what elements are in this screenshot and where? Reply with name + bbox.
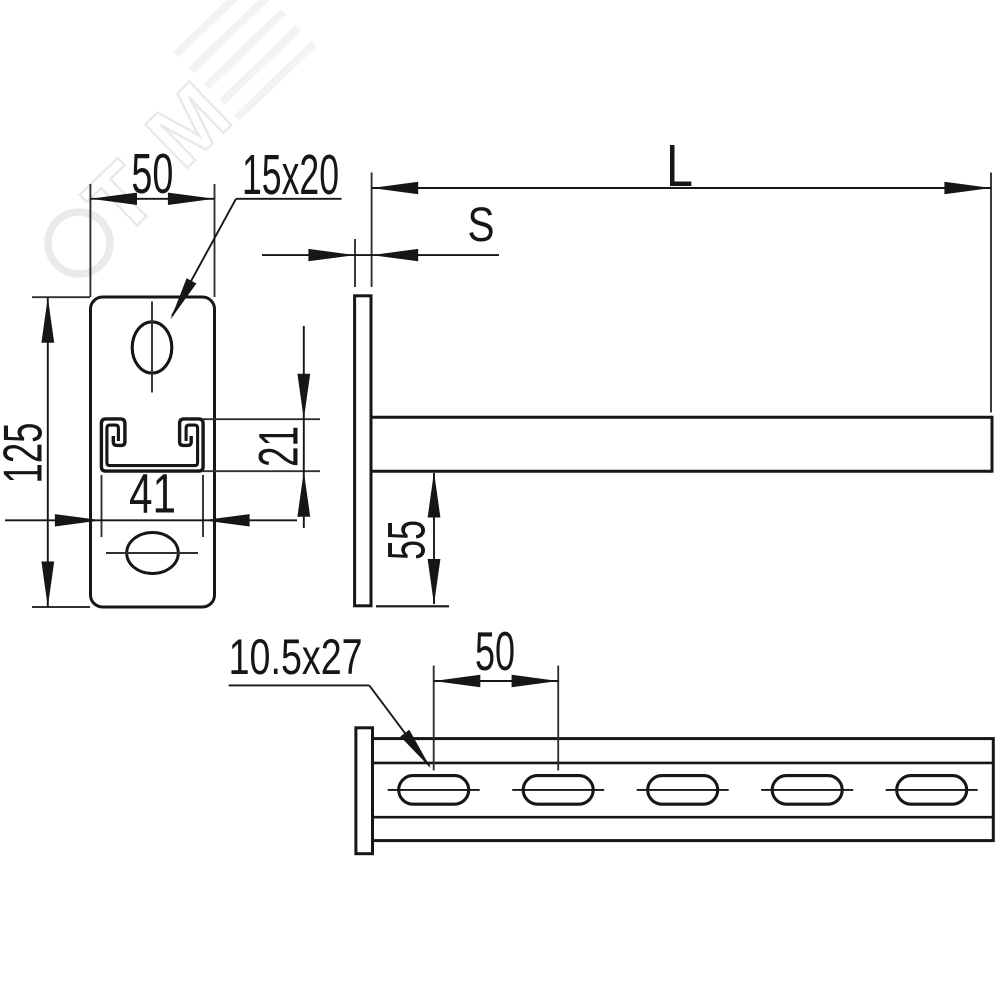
side view: arm bottom edge	[371, 470, 992, 473]
side view: wall plate	[355, 296, 371, 606]
bottom view: slot 2 centerline	[512, 789, 604, 791]
dimension 41: dimension line	[5, 519, 297, 521]
svg-text:21: 21	[247, 426, 310, 467]
bottom view: slot 3	[648, 776, 718, 805]
bottom view: slot 1	[399, 776, 469, 805]
dimension L: extension lines	[371, 173, 373, 288]
svg-text:10.5x27: 10.5x27	[229, 629, 363, 685]
bottom view: slot 3 centerline	[637, 789, 729, 791]
dimension 55: dimension line	[433, 473, 435, 604]
svg-text:S: S	[468, 199, 495, 252]
dimension L: dimension line	[372, 187, 991, 189]
bottom view: slot 5 centerline	[886, 789, 978, 791]
dimension S: arrowheads	[308, 249, 355, 261]
svg-text:41: 41	[129, 462, 176, 525]
bottom view: slot 1 centerline	[388, 789, 480, 791]
front view: bottom hole horizontal centerline	[106, 552, 198, 554]
bottom view: lower lip line	[373, 816, 994, 819]
watermark logo ring	[35, 199, 123, 287]
bottom view: slot 4	[772, 776, 842, 805]
label 10.5x27: leader shelf	[229, 684, 370, 686]
dimension 50 pitch: extension lines	[433, 666, 435, 771]
front view: strut channel inner surface	[107, 425, 198, 466]
dimension 21: extension lines	[203, 418, 320, 420]
label 10.5x27: leader arrowhead	[400, 730, 431, 769]
dimension 50 top: arrowheads	[90, 193, 137, 205]
dimension 55: arrowheads	[428, 472, 441, 518]
svg-text:50: 50	[475, 620, 515, 682]
svg-text:55: 55	[378, 520, 437, 560]
front view: strut channel outer surface	[101, 419, 203, 471]
dimension S: dimension line	[262, 254, 499, 256]
svg-text:15x20: 15x20	[242, 143, 339, 207]
dimension 50 top: extension lines	[89, 184, 91, 297]
dimension 41: extension lines	[101, 475, 103, 537]
svg-text:L: L	[666, 133, 693, 199]
bottom view: upper lip line	[373, 762, 994, 765]
dimension L: arrowheads	[372, 182, 419, 194]
dimension 50 pitch: arrowheads	[434, 675, 481, 687]
dimension 21: dimension line	[303, 326, 305, 528]
dimension 125: dimension line	[47, 297, 49, 607]
dimension 50 top: dimension line	[90, 198, 214, 200]
svg-text:50: 50	[131, 142, 173, 206]
bottom view: wall plate	[356, 728, 373, 854]
dimension 125: extension lines	[32, 296, 90, 298]
label 10.5x27: leader diagonal	[369, 685, 429, 766]
dimension 50 pitch: dimension line	[434, 680, 559, 682]
front view: top oblong hole 15x20	[132, 322, 172, 373]
bottom view: channel body	[373, 739, 994, 841]
label 15x20: leader arrowhead	[171, 278, 197, 319]
dimension S: extension line	[354, 239, 356, 287]
dimension 125: arrowheads	[41, 297, 54, 343]
front view: top hole vertical centerline	[151, 302, 153, 393]
bottom view: slot 2	[523, 776, 593, 805]
dimension 55: bottom extension line	[376, 605, 449, 607]
dimension 41: arrowheads	[55, 514, 102, 526]
label 15x20: leader diagonal	[172, 199, 236, 316]
side view: arm right end	[991, 416, 994, 473]
bottom view: slot 5	[897, 776, 967, 805]
front view: bottom slotted hole	[127, 533, 179, 574]
front view: mounting plate	[91, 297, 215, 607]
bottom view: slot 4 centerline	[761, 789, 853, 791]
watermark stripe block	[176, 0, 314, 118]
svg-text:125: 125	[0, 423, 54, 484]
label 15x20: leader shelf	[236, 198, 342, 200]
dimension 21: arrowheads	[297, 374, 310, 420]
side view: arm top edge	[371, 416, 992, 419]
